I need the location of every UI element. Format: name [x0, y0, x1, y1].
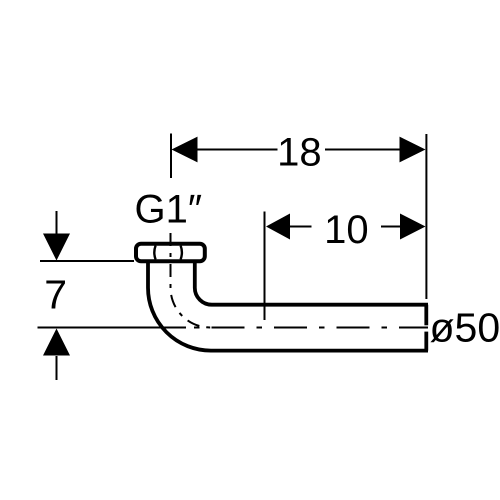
svg-text:10: 10 [324, 208, 369, 252]
svg-text:18: 18 [277, 131, 322, 175]
svg-text:ø50: ø50 [430, 305, 500, 351]
svg-text:G1″: G1″ [135, 187, 203, 231]
svg-text:7: 7 [44, 272, 67, 318]
